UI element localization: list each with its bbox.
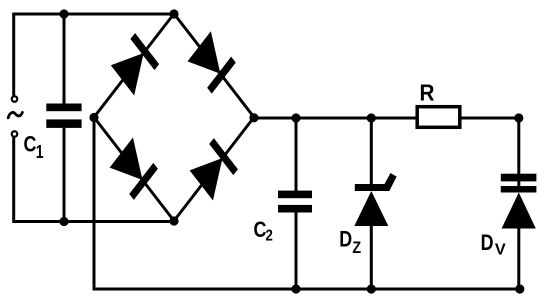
varicap diode DV cathode bar bbox=[501, 186, 537, 193]
node: C2 bottom junction bbox=[291, 284, 300, 293]
svg-text:Z: Z bbox=[352, 239, 361, 257]
varicap diode DV bottom lead bbox=[517, 229, 520, 290]
svg-text:R: R bbox=[420, 79, 435, 105]
wire DC minus: bridge left vertex down and along bottom to far right bbox=[94, 118, 520, 290]
zener diode DZ top lead bbox=[370, 118, 373, 188]
capacitor C2 bottom lead bbox=[295, 213, 298, 290]
varicap diode DV triangle bbox=[502, 193, 536, 229]
capacitor C1 bottom lead bbox=[63, 128, 66, 222]
wire DC plus: bridge right vertex to resistor bbox=[254, 117, 416, 120]
zener diode DZ bottom lead bbox=[370, 226, 373, 289]
capacitor C1 plates bbox=[46, 104, 81, 112]
wire bridge arm top-right bbox=[174, 14, 254, 118]
wire resistor to DV branch bbox=[462, 117, 519, 120]
label C1 bbox=[24, 133, 44, 163]
AC source terminal (upper) bbox=[12, 96, 18, 102]
diode D3 (bridge, left vertex to bottom vertex) bbox=[109, 137, 158, 200]
wire bridge arm left-top bbox=[94, 14, 174, 118]
resistor R body bbox=[417, 107, 460, 128]
node: bridge top vertex bbox=[169, 9, 178, 18]
capacitor C2 top lead bbox=[295, 118, 298, 191]
wire bridge arm left-bottom bbox=[94, 117, 174, 221]
wire bridge arm bottom-right bbox=[174, 117, 254, 221]
node: DZ bottom junction bbox=[367, 284, 376, 293]
node: bridge bottom vertex bbox=[169, 216, 178, 225]
varicap diode DV top lead bbox=[517, 118, 520, 188]
zener diode DZ triangle bbox=[354, 191, 388, 226]
diode D4 (bridge, bottom vertex to right vertex) bbox=[189, 138, 238, 201]
AC source terminal (lower) bbox=[12, 131, 18, 137]
label DZ bbox=[339, 228, 361, 258]
zener diode DZ cathode bar with hook bbox=[355, 173, 397, 191]
diode D2 (bridge, top vertex to right vertex) bbox=[187, 31, 236, 94]
svg-text:C: C bbox=[24, 133, 37, 157]
node: C1 bottom junction bbox=[59, 217, 68, 226]
svg-text:2: 2 bbox=[266, 227, 273, 244]
svg-text:C: C bbox=[254, 218, 267, 242]
wire top rail from AC left to bridge top vertex bbox=[14, 14, 174, 96]
wire bottom-left rail from AC lower terminal to bridge bottom vertex bbox=[14, 138, 174, 222]
node: corner junction above DV bbox=[514, 113, 523, 122]
svg-text:V: V bbox=[495, 242, 506, 259]
node: DZ top junction bbox=[367, 113, 376, 122]
label R bbox=[420, 79, 435, 105]
AC source ~ symbol bbox=[8, 112, 22, 117]
label DV bbox=[481, 231, 507, 258]
svg-text:1: 1 bbox=[36, 142, 44, 162]
node: DV bottom junction (end of rail) bbox=[515, 284, 524, 293]
label C2 bbox=[254, 218, 273, 244]
varicap diode DV capacitor plate bbox=[501, 174, 537, 182]
node: C2 top junction bbox=[291, 113, 300, 122]
capacitor C1 top lead bbox=[63, 14, 66, 104]
svg-text:D: D bbox=[481, 231, 494, 255]
diode D1 (bridge, left vertex to top vertex) bbox=[110, 33, 159, 96]
node: bridge right vertex (DC plus) bbox=[249, 113, 258, 122]
node: bridge left vertex (DC minus) bbox=[89, 113, 98, 122]
node: C1 top junction bbox=[59, 9, 68, 18]
capacitor C2 plates bbox=[278, 191, 312, 199]
svg-text:D: D bbox=[339, 228, 352, 252]
